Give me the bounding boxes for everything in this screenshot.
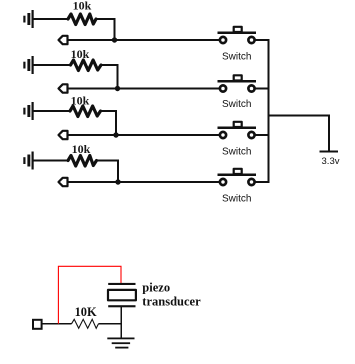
svg-text:10k: 10k: [72, 142, 91, 156]
wire pin P3 to switch SW3: [68, 134, 220, 136]
switch SW1 pushbutton: [218, 27, 257, 43]
pin P4 (input tag): [59, 178, 68, 186]
svg-text:Switch: Switch: [222, 52, 251, 63]
svg-text:10k: 10k: [71, 94, 90, 108]
wire switch SW3 to bus: [256, 134, 270, 136]
junction node B: [115, 86, 120, 91]
wire corner down to node B: [117, 64, 119, 89]
pin P2 (input tag): [59, 84, 68, 92]
pin P1 (input tag): [59, 36, 68, 44]
svg-text:transducer: transducer: [142, 294, 201, 308]
terminal pad (square): [33, 320, 42, 329]
wire resistor R3 to corner: [101, 110, 118, 112]
wire piezo bottom to ground G5: [120, 307, 122, 338]
switch SW3 pushbutton: [218, 122, 257, 138]
wire ground G4 to resistor R4: [33, 160, 68, 162]
wire pin P1 to switch SW1: [68, 39, 220, 41]
svg-text:10k: 10k: [73, 0, 92, 13]
wire ground G2 to resistor R2: [33, 64, 71, 66]
svg-text:10k: 10k: [71, 47, 90, 61]
wire pin P4 to switch SW4: [68, 181, 220, 183]
junction node C: [113, 132, 118, 137]
resistor R2 zigzag: [71, 60, 102, 71]
switch SW4 pushbutton: [218, 169, 257, 185]
svg-text:3.3v: 3.3v: [322, 156, 340, 167]
wire switch SW2 to bus: [256, 88, 270, 90]
svg-text:10K: 10K: [75, 305, 97, 319]
wire resistor R1 to corner: [96, 18, 116, 20]
junction node D: [115, 179, 120, 184]
supply terminal 3.3v bar: [319, 150, 338, 152]
wire switch SW1 to bus: [256, 39, 270, 41]
svg-text:Switch: Switch: [222, 194, 251, 205]
resistor R1 zigzag: [68, 14, 96, 25]
wire switch SW4 to bus: [256, 181, 270, 183]
wire corner down to node A: [114, 18, 116, 40]
piezo transducer PZ1: [108, 283, 136, 307]
wire resistor R5 to piezo node: [99, 323, 123, 325]
resistor R3 zigzag: [70, 106, 101, 117]
wire pin P2 to switch SW2: [68, 88, 220, 90]
wire ground G3 to resistor R3: [33, 110, 70, 112]
switch SW2 pushbutton: [218, 75, 257, 91]
resistor R5 zigzag: [72, 319, 99, 328]
svg-text:piezo: piezo: [142, 280, 170, 294]
ground G4 (rotated, pointing left): [23, 152, 33, 170]
ground G5: [107, 338, 134, 349]
wire corner down to node D: [117, 160, 119, 183]
svg-text:Switch: Switch: [222, 99, 251, 110]
wire bus to 3.3v branch: [268, 114, 330, 116]
pin P3 (input tag): [59, 131, 68, 139]
wire resistor R2 to corner: [101, 64, 119, 66]
ground G3 (rotated, pointing left): [23, 102, 33, 120]
wire 3.3v branch down: [328, 114, 330, 151]
resistor R4 zigzag: [68, 156, 97, 167]
label piezo transducer: [142, 280, 201, 308]
wire ground G1 to resistor R1: [33, 18, 68, 20]
ground G1 (rotated, pointing left): [23, 10, 33, 28]
junction node A: [112, 37, 117, 42]
wire corner down to node C: [115, 110, 117, 135]
wire bus vertical: [268, 39, 270, 183]
wire pad to resistor R5: [43, 323, 72, 325]
red wire (pad net to piezo top): [58, 266, 121, 324]
wire resistor R4 to corner: [97, 160, 120, 162]
svg-text:Switch: Switch: [222, 147, 251, 158]
ground G2 (rotated, pointing left): [23, 56, 33, 74]
